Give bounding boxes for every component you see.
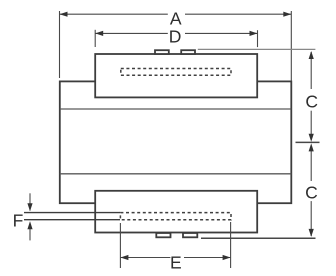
svg-text:E: E: [170, 253, 182, 273]
svg-text:F: F: [13, 210, 24, 230]
svg-text:C: C: [305, 91, 318, 111]
svg-text:D: D: [169, 27, 182, 47]
svg-text:A: A: [170, 8, 182, 28]
svg-text:C: C: [305, 183, 318, 203]
